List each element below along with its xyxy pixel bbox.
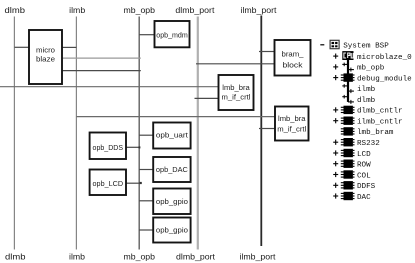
svg-text:opb_LCD: opb_LCD xyxy=(93,179,124,188)
svg-text:dlmb_port: dlmb_port xyxy=(175,5,215,15)
svg-text:opb_DDS: opb_DDS xyxy=(93,143,124,152)
svg-text:dlmb: dlmb xyxy=(357,97,376,105)
block opb_LCD xyxy=(90,170,126,196)
tree item RS232 xyxy=(333,138,380,148)
tree item LCD xyxy=(333,149,371,159)
block opb_DDS xyxy=(90,133,126,160)
svg-text:ilmb: ilmb xyxy=(357,86,376,94)
svg-text:debug_module: debug_module xyxy=(357,75,412,83)
svg-text:dlmb: dlmb xyxy=(5,5,26,15)
svg-text:System BSP: System BSP xyxy=(343,43,389,51)
block opb_DAC xyxy=(153,157,190,182)
svg-text:block: block xyxy=(283,60,303,69)
wire mb_opb to opb_uart xyxy=(139,134,153,136)
junction dot DDS wire on mb_opb xyxy=(138,146,140,148)
svg-text:ilmb_port: ilmb_port xyxy=(240,252,277,262)
tree connector bus line (cpu to dlmb tap) xyxy=(347,60,349,102)
wire long left edge to lmb_bram ctrl 1 xyxy=(0,86,219,88)
tree item mb_opb xyxy=(333,63,385,73)
svg-text:DDFS: DDFS xyxy=(357,183,376,191)
wire dlmb to microblaze xyxy=(14,46,29,48)
block opb_uart xyxy=(153,123,190,149)
tree item System BSP xyxy=(320,40,389,50)
bus dlmb vertical line xyxy=(13,17,15,250)
wire microblaze to ilmb xyxy=(62,46,76,48)
wire ilmb to lmb_bram ctrl 2 xyxy=(76,116,275,118)
wire dlmb_port to lmb_bram ctrl 1 xyxy=(195,97,219,99)
tree item COL xyxy=(333,170,371,180)
tree item DAC xyxy=(333,192,371,202)
svg-text:dlmb_cntlr: dlmb_cntlr xyxy=(357,108,403,116)
svg-text:ilmb_cntlr: ilmb_cntlr xyxy=(357,119,403,127)
block lmb_bram_if_cntlr 1 xyxy=(219,75,254,110)
svg-text:opb_uart: opb_uart xyxy=(156,130,188,139)
block opb_gpio 1 xyxy=(153,189,190,215)
wire opb_DDS to mb_opb xyxy=(126,146,140,148)
svg-text:ROW: ROW xyxy=(357,162,371,170)
svg-text:micro: micro xyxy=(36,45,55,54)
svg-text:dlmb: dlmb xyxy=(5,252,26,262)
tree item dlmb xyxy=(342,95,375,105)
junction dot LCD wire on mb_opb xyxy=(140,182,142,184)
svg-text:COL: COL xyxy=(357,172,371,180)
tree item ROW xyxy=(333,160,371,170)
wire dlmb_port to bram_block xyxy=(196,63,275,65)
svg-text:lmb_bram: lmb_bram xyxy=(357,129,394,137)
tree item lmb_bram xyxy=(341,127,394,137)
wire opb_LCD to mb_opb xyxy=(126,182,141,184)
block lmb_bram_if_cntlr 2 xyxy=(275,107,309,141)
svg-text:m_if_crtl: m_if_crtl xyxy=(277,126,306,133)
svg-text:mb_opb: mb_opb xyxy=(124,252,156,262)
svg-text:lmb_bra: lmb_bra xyxy=(222,85,250,92)
svg-text:ilmb: ilmb xyxy=(69,252,85,262)
svg-text:lmb_bra: lmb_bra xyxy=(278,116,306,123)
bus mb_opb vertical line xyxy=(138,17,140,250)
svg-text:mb_opb: mb_opb xyxy=(124,5,156,15)
wire microblaze to mb_opb xyxy=(62,70,141,72)
bus ilmb vertical line xyxy=(75,17,77,250)
wire mb_opb to opb_mdm xyxy=(139,34,154,36)
svg-text:bram_: bram_ xyxy=(282,50,305,59)
tree item dlmb_cntlr xyxy=(333,106,402,116)
tree item microblaze_0 xyxy=(333,51,412,62)
svg-text:opb_gpio: opb_gpio xyxy=(156,197,188,206)
block microblaze U-MB xyxy=(29,30,62,84)
svg-text:ilmb_port: ilmb_port xyxy=(241,5,278,15)
wire mb_opb to opb_gpio 2 xyxy=(139,229,153,231)
wire ilmb_port to lmb_bram ctrl 2 xyxy=(259,128,275,130)
wire mb_opb to opb_gpio 1 xyxy=(139,200,153,202)
svg-text:DAC: DAC xyxy=(357,194,371,202)
wire mb_opb to opb_DAC xyxy=(139,169,153,171)
wire ilmb_port to bram_block xyxy=(259,51,275,53)
svg-text:ilmb: ilmb xyxy=(69,5,85,15)
svg-text:opb_mdm: opb_mdm xyxy=(156,30,188,39)
bus dlmb_port vertical line xyxy=(197,17,199,250)
bus ilmb_port vertical line xyxy=(260,16,262,247)
block opb_mdm xyxy=(155,21,190,47)
svg-text:RS232: RS232 xyxy=(357,140,380,148)
tree item ilmb xyxy=(342,84,375,94)
tree item DDFS xyxy=(333,181,375,191)
block opb_gpio 2 xyxy=(153,218,190,243)
svg-text:m_if_crtl: m_if_crtl xyxy=(222,95,251,102)
svg-text:microblaze_0: microblaze_0 xyxy=(357,54,412,62)
svg-text:blaze: blaze xyxy=(36,54,55,63)
tree item ilmb_cntlr xyxy=(333,117,402,127)
wire microblaze to mb_opb (light) xyxy=(62,57,141,59)
svg-text:LCD: LCD xyxy=(357,151,371,159)
svg-text:mb_opb: mb_opb xyxy=(357,65,385,73)
svg-text:dlmb_port: dlmb_port xyxy=(176,252,216,262)
svg-text:opb_DAC: opb_DAC xyxy=(156,165,188,174)
tree item debug_module xyxy=(333,73,412,83)
block bram_block xyxy=(275,40,311,76)
svg-text:opb_gpio: opb_gpio xyxy=(156,226,188,235)
